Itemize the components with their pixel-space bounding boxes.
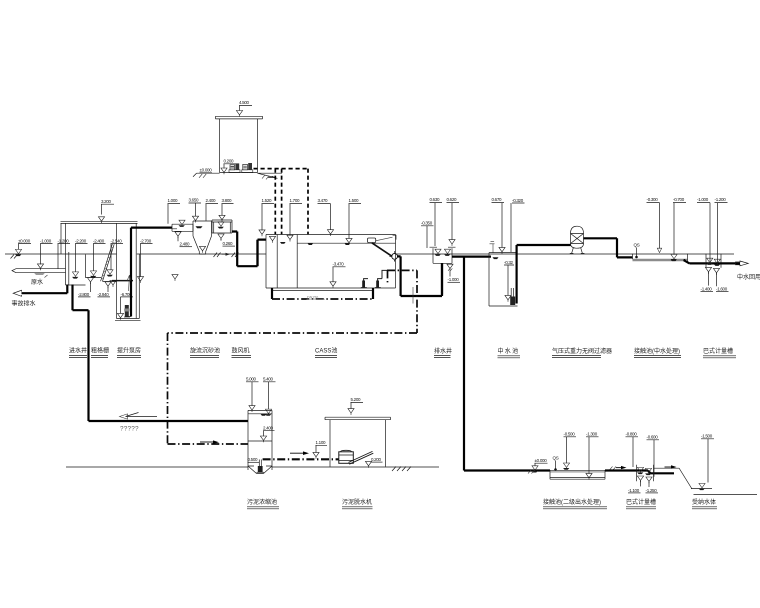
- bottom-left ground line: [66, 466, 439, 468]
- svg-text:污泥脱水机: 污泥脱水机: [342, 498, 372, 506]
- svg-text:-1.000: -1.000: [40, 238, 52, 243]
- water level in thickener: [261, 414, 267, 416]
- label 中水池: [498, 347, 521, 358]
- mechanical bar screen (diagonal): [101, 244, 115, 282]
- markers in bottom flume: [637, 467, 644, 474]
- svg-text:1.520: 1.520: [262, 198, 273, 203]
- label 巴式计量槽 (top): [703, 347, 736, 358]
- label 巴式计量槽 (bottom): [626, 498, 656, 509]
- elevation label -2.400 screen channel water: [90, 238, 105, 277]
- svg-text:-2.940: -2.940: [98, 292, 110, 297]
- grit inlet box: [172, 224, 193, 231]
- label -2.940 under second floor: [98, 282, 112, 297]
- label 鼓风机: [232, 347, 252, 358]
- svg-text:-2.800: -2.800: [78, 292, 90, 297]
- ground hatch + flow arrow mid: [214, 253, 239, 258]
- label 5.200 roof: [348, 397, 363, 415]
- label 接触池(中水处理): [634, 347, 681, 358]
- vortex grit chamber funnel: [193, 221, 212, 254]
- svg-text:?????: ?????: [120, 426, 139, 433]
- svg-text:1.500: 1.500: [349, 198, 360, 203]
- svg-text:-0.700: -0.700: [673, 197, 685, 202]
- CASS tank outline: [266, 235, 396, 291]
- screen channel floor: [86, 278, 117, 282]
- svg-text:±0.000: ±0.000: [535, 458, 548, 463]
- submersible pump 2 in CASS: [375, 279, 382, 288]
- label 2.400: [206, 198, 219, 221]
- decanter guide line: [376, 237, 393, 241]
- WAS dash-dot from pumps: [387, 269, 417, 271]
- svg-text:2.400: 2.400: [263, 426, 274, 431]
- label 4.500: [236, 100, 252, 117]
- pump riser pipe (thick): [131, 228, 172, 317]
- svg-text:-1.000: -1.000: [448, 277, 460, 282]
- label 提升泵房: [117, 347, 141, 358]
- tank box: [489, 253, 518, 306]
- dark water edge at well inlet: [112, 280, 133, 282]
- conveyor diagonal: [349, 451, 374, 464]
- label 受纳水体: [692, 498, 717, 509]
- svg-text:旋流沉砂池: 旋流沉砂池: [190, 347, 220, 355]
- svg-text:-0.350: -0.350: [421, 221, 433, 226]
- ground under blower house: [193, 173, 282, 178]
- effluent reuse arrow: [736, 261, 749, 266]
- label -1.500: [701, 434, 714, 483]
- dewatering building roof: [325, 417, 391, 420]
- svg-text:-1.300: -1.300: [586, 432, 598, 437]
- label 旋流沉砂池: [190, 347, 220, 358]
- decanter arm (thick diagonal): [372, 243, 392, 257]
- sludge pump discharge to WAS line: [382, 270, 387, 278]
- svg-text:提升泵房: 提升泵房: [117, 347, 141, 355]
- label -0.300: [647, 197, 662, 252]
- svg-text:3.650: 3.650: [189, 198, 200, 203]
- elevation label -1.000 raw water: [34, 238, 53, 275]
- svg-text:排水井: 排水井: [434, 347, 452, 355]
- blower unit 2: [242, 163, 253, 172]
- CASS dividers: [277, 235, 297, 289]
- svg-text:0.200: 0.200: [371, 457, 382, 462]
- drain well outlet right (thick): [452, 256, 491, 258]
- outfall arrow: [665, 466, 672, 468]
- svg-text:±0.000: ±0.000: [200, 168, 213, 173]
- label 接触池(二级出水处理): [543, 498, 607, 509]
- label 3.650: [189, 198, 202, 223]
- thick discharge run along ground: [464, 469, 550, 471]
- elevation label -2.700 wet well water: [137, 238, 152, 283]
- marker below drain well: [447, 264, 460, 282]
- svg-text:污泥浓缩池: 污泥浓缩池: [247, 498, 277, 506]
- svg-text:气压式重力无阀过滤器: 气压式重力无阀过滤器: [552, 347, 612, 355]
- label -6.700 at wet well floor: [117, 292, 133, 320]
- ground hatch left end: [11, 255, 18, 259]
- label -0.500: [563, 432, 576, 470]
- label 0.200 dewatering discharge: [365, 457, 382, 468]
- svg-text:2.480: 2.480: [180, 242, 191, 247]
- elevation label -1.200: [58, 238, 71, 268]
- air drop pipe 1: [274, 169, 276, 235]
- svg-text:QS: QS: [553, 456, 559, 461]
- wet well (pump station): [115, 223, 141, 320]
- svg-text:1.100: 1.100: [316, 440, 327, 445]
- marker on riser to CASS: [172, 275, 178, 281]
- label -1.200 (top right): [715, 197, 728, 262]
- building columns: [330, 420, 386, 467]
- svg-text:1.000: 1.000: [168, 198, 179, 203]
- elevated grit discharge box: [212, 220, 232, 233]
- funnel bottom marker: [199, 246, 205, 252]
- label +0.000 outside ground: [200, 168, 213, 173]
- svg-text:-0.600: -0.600: [647, 435, 659, 440]
- submersible pump in wet well: [125, 305, 129, 317]
- main ground line: [5, 253, 734, 255]
- svg-text:3.800: 3.800: [222, 198, 233, 203]
- svg-text:中水回用: 中水回用: [737, 273, 760, 281]
- svg-text:事故排水: 事故排水: [12, 300, 36, 308]
- water marker in inlet box: [179, 220, 186, 227]
- svg-text:CASS池: CASS池: [315, 347, 337, 355]
- elevation label -2.540 after screen: [107, 238, 123, 276]
- markers in flume: [706, 258, 713, 265]
- thick discharge continues to flume: [605, 471, 674, 474]
- water markers in drain well: [435, 249, 442, 256]
- svg-text:5.200: 5.200: [351, 397, 362, 402]
- label 3.470: [318, 198, 334, 236]
- blower house roof slab: [216, 116, 263, 119]
- WAS dash-dot to thickener: across and down: [168, 333, 418, 444]
- label -0.600: [647, 435, 660, 477]
- WAS dash-dot main drop: [416, 270, 418, 333]
- sample pipe QS bottom: [553, 456, 559, 471]
- bottom-left ground hatch right: [392, 467, 411, 472]
- svg-text:-1.500: -1.500: [701, 434, 713, 439]
- label 0.620: [447, 197, 460, 246]
- sample pipe QS: [634, 243, 640, 259]
- label -0.800: [626, 432, 639, 467]
- label 1.000: [168, 198, 181, 224]
- svg-text:鼓风机: 鼓风机: [232, 347, 250, 355]
- step marker below screen outlet: [110, 281, 116, 287]
- flow arrow + hatch after channel: [610, 466, 617, 470]
- label 0.500: [248, 457, 260, 462]
- svg-text:-2.400: -2.400: [93, 238, 105, 243]
- thin leader near effluent pipe: [412, 287, 414, 304]
- label 排水井: [434, 347, 452, 358]
- svg-text:-1.250: -1.250: [646, 488, 658, 493]
- svg-text:0.500: 0.500: [248, 457, 259, 462]
- svg-text:-0.800: -0.800: [626, 432, 638, 437]
- blower unit 1: [229, 163, 240, 172]
- svg-text:0.630: 0.630: [430, 197, 441, 202]
- svg-text:-1.200: -1.200: [58, 238, 70, 243]
- thick supernatant return line: [89, 420, 249, 422]
- air drop pipe 3 into CASS: [307, 169, 309, 235]
- svg-text:-0.320: -0.320: [512, 198, 524, 203]
- svg-text:-0.300: -0.300: [647, 197, 659, 202]
- label -2.800 under channel floor: [78, 278, 94, 297]
- thickener labels 5.000 / 5.400: [246, 377, 259, 412]
- inlet water blob: [493, 257, 499, 259]
- svg-text:-1.100: -1.100: [628, 488, 640, 493]
- svg-text:-0.500: -0.500: [564, 432, 576, 437]
- svg-text:-3.470: -3.470: [333, 262, 345, 267]
- label CASS池: [315, 347, 337, 358]
- svg-text:3.200: 3.200: [101, 199, 112, 204]
- air main (dashed) from blowers: [254, 168, 309, 170]
- thickener hopper: [248, 466, 272, 474]
- svg-text:中水池: 中水池: [498, 347, 520, 355]
- svg-text:巴式计量槽: 巴式计量槽: [626, 498, 656, 506]
- label -1.000 (top right): [697, 197, 710, 262]
- label 污泥脱水机: [342, 498, 373, 509]
- svg-text:粗格栅: 粗格栅: [91, 347, 109, 355]
- pump in tank: [510, 288, 515, 305]
- water blob in funnel: [196, 226, 203, 228]
- thin channel water line: [550, 471, 605, 473]
- label -1.300 floor: [586, 432, 599, 480]
- measuring flume (bottom): [637, 465, 654, 481]
- river bottom: [694, 494, 758, 496]
- step from contact channel (thick): [684, 260, 707, 263]
- contact channel (bottom): [550, 470, 637, 479]
- flume water line thick: [706, 262, 740, 264]
- svg-text:-1.000: -1.000: [697, 197, 709, 202]
- flow arrow on feed: [290, 452, 303, 454]
- label 0.200 blower floor: [221, 159, 236, 175]
- svg-text:-1.600: -1.600: [716, 286, 728, 291]
- drain well box: [430, 247, 456, 263]
- label 3.800: [219, 198, 234, 221]
- water blobs in CASS cells: [280, 242, 286, 244]
- svg-text:0.670: 0.670: [492, 197, 503, 202]
- outfall top line after flume: [654, 467, 680, 469]
- svg-text:-2.200: -2.200: [75, 238, 87, 243]
- wall bracket top right: [393, 235, 396, 239]
- label 1.700: [287, 198, 302, 241]
- decanter swivel joint: [390, 251, 400, 261]
- svg-text:±0.000: ±0.000: [18, 238, 31, 243]
- receiving water surface: [691, 488, 712, 490]
- svg-text:接触池(中水处理): 接触池(中水处理): [634, 347, 680, 355]
- ground ref marker ±0.000: [528, 458, 548, 474]
- elevation label 3.200 roof slab: [98, 199, 114, 223]
- svg-text:-2.700: -2.700: [140, 238, 152, 243]
- bank slope: [679, 468, 692, 489]
- flow-up arrow in wet well: [127, 275, 131, 291]
- WAS dash-dot drop left side: [387, 270, 389, 283]
- label 2.480 below box floor: [175, 232, 192, 247]
- thick dash-dot sludge feed to dewatering: [263, 458, 339, 460]
- label 0.260 below box2 floor: [218, 234, 235, 246]
- decanter box: [368, 238, 376, 243]
- label -0.320: [511, 198, 525, 252]
- vent mark at tank inlet: [490, 242, 495, 253]
- label 进水井: [69, 347, 87, 358]
- label 污泥浓缩池: [247, 498, 279, 509]
- label 1.520: [259, 198, 274, 236]
- water marker in discharge box: [218, 222, 225, 229]
- svg-text:巴式计量槽: 巴式计量槽: [703, 347, 733, 355]
- drain from inlet well down: [73, 285, 89, 422]
- svg-text:接触池(二级出水处理): 接触池(二级出水处理): [543, 498, 601, 506]
- dewatering machine (screw press): [339, 450, 374, 464]
- elevation label +0.000 ground: [15, 238, 31, 256]
- drain well outlet down (thick to discharge): [442, 258, 464, 471]
- label 气压式重力无阀过滤器: [552, 347, 612, 358]
- label -3.470 tank floor: [330, 262, 346, 289]
- svg-text:原水: 原水: [31, 278, 43, 286]
- label 0.630: [430, 197, 443, 246]
- riser thick along right wall and to filter: [517, 245, 571, 304]
- label 1.100 on feed pipe: [313, 440, 327, 458]
- blower house walls: [220, 119, 258, 173]
- svg-text:-1.200: -1.200: [715, 197, 727, 202]
- thick pipe grit box2 to CASS inlet: [232, 232, 266, 267]
- svg-text:3.470: 3.470: [318, 198, 329, 203]
- label 粗格栅: [91, 347, 109, 358]
- raw water inlet pipe: [12, 269, 66, 273]
- roof slab of pump house: [61, 221, 138, 254]
- measuring flume (top): [706, 254, 721, 268]
- inside label -0.32: [504, 260, 514, 302]
- accident drain arrow 事故排水: [13, 290, 21, 296]
- label -0.350: [421, 221, 434, 248]
- label -0.700: [671, 197, 686, 261]
- label 0.670: [492, 197, 506, 254]
- svg-text:5.400: 5.400: [263, 377, 274, 382]
- CASS effluent pipe to drain well: [398, 256, 443, 296]
- markers below flume: [701, 267, 714, 291]
- sludge thickening tank: [248, 410, 272, 470]
- flow arrow on sludge run: [200, 441, 213, 443]
- svg-text:QS: QS: [634, 243, 640, 248]
- CASS inner freeboard line: [297, 242, 395, 244]
- inlet well walls: [66, 223, 86, 285]
- svg-text:DN150: DN150: [307, 295, 318, 299]
- svg-text:5.000: 5.000: [246, 377, 257, 382]
- elevation label -2.200 well water: [72, 238, 87, 278]
- CASS influent drop inside tank: [256, 240, 258, 266]
- submersible pump 1 in CASS: [361, 279, 368, 288]
- filter outlet thick pipe: [584, 238, 633, 257]
- air drop pipe 2: [281, 169, 283, 235]
- svg-text:0.620: 0.620: [447, 197, 458, 202]
- label 1.500: [346, 198, 361, 245]
- svg-text:受纳水体: 受纳水体: [692, 498, 716, 506]
- svg-text:1.700: 1.700: [290, 198, 301, 203]
- label 2.400 inner level: [248, 426, 275, 443]
- svg-text:0.260: 0.260: [223, 241, 234, 246]
- svg-text:0.200: 0.200: [224, 159, 235, 164]
- svg-text:进水井: 进水井: [69, 347, 87, 355]
- svg-text:-0.32: -0.32: [504, 260, 514, 265]
- svg-text:4.500: 4.500: [239, 100, 250, 105]
- flow arrow on return line: [126, 413, 158, 417]
- svg-text:2.400: 2.400: [206, 198, 217, 203]
- tank underdrain dash-dot: [271, 288, 273, 299]
- svg-text:-1.400: -1.400: [701, 286, 713, 291]
- thickener sludge pump: [257, 460, 265, 473]
